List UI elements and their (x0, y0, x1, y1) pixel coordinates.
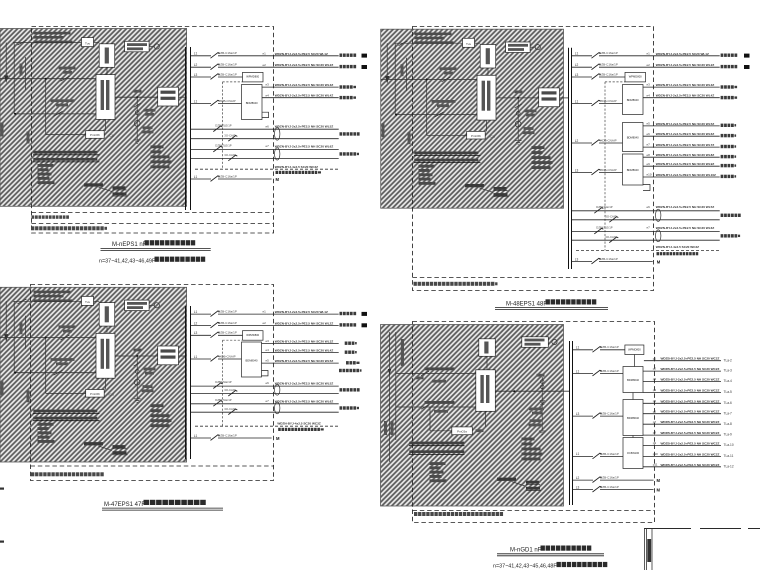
TR module3 output 1 (643, 156, 720, 158)
TR EPS breaker KG1 label (440, 67, 457, 70)
TR module WPMD800 (625, 72, 646, 82)
BL EPS arrow incoming A (5, 301, 8, 340)
BR block breaker B1 (421, 371, 429, 375)
BR note text (414, 512, 417, 516)
BL EPS wire TUV to inverter (94, 300, 100, 302)
TR panel dashed border (413, 27, 654, 291)
BR block output note M (497, 478, 516, 481)
TR EPS contactor chain wire (517, 98, 519, 140)
svg-text:M-nGD1 nF: M-nGD1 nF (510, 548, 542, 554)
TR module BDM8040 no.3 (623, 154, 644, 185)
TL EPS junction B (14, 113, 16, 115)
TR EPS inverter box (480, 45, 496, 69)
TL EPS wire incoming top (13, 42, 82, 44)
TL busbar (185, 47, 187, 210)
svg-text:DZB-C16a/1P: DZB-C16a/1P (218, 51, 237, 55)
svg-text:n=37~41,42,43~45,46,48F: n=37~41,42,43~45,46,48F (493, 564, 557, 570)
BR block EPS output wire (495, 390, 569, 392)
TR EPS arrow incoming A (386, 43, 389, 82)
BL EPS output note M (84, 442, 103, 445)
TR dest C4 group3 3 (721, 175, 724, 178)
svg-text:WDZN-BYJ-2x2.5+PE2.5 NH SC20 W: WDZN-BYJ-2x2.5+PE2.5 NH SC20 WL5Z (275, 359, 334, 363)
svg-text:WDZN-BYJ-2x2.5+PE2.5 NH SC20 W: WDZN-BYJ-2x2.5+PE2.5 NH SC20 WL8Z (656, 153, 715, 157)
svg-text:L1: L1 (576, 452, 580, 456)
BR block riser arrow (388, 369, 391, 375)
TL EPS cable spec line 2 (33, 158, 97, 161)
BR lighting circuit p9 (643, 445, 721, 447)
BL EPS battery text block (151, 404, 164, 407)
svg-text:WDZN-BYJ-2x2.5+PE2.5 NH SC20 W: WDZN-BYJ-2x2.5+PE2.5 NH SC20 WL4Z (275, 94, 334, 98)
svg-text:L2: L2 (194, 321, 198, 325)
svg-text:WDZN-BYJ-2x2.5+PE2.5 NH SC20 W: WDZN-BYJ-2x2.5+PE2.5 NH SC20 WL2Z (275, 322, 334, 326)
svg-text:e3: e3 (266, 339, 270, 343)
BL EPS label PM rating (144, 368, 156, 371)
BL EPS leader line (99, 446, 113, 450)
TL EPS wire EPS to charger (105, 119, 107, 130)
TR wire to busbar (560, 97, 569, 99)
TL module output e4 (262, 97, 339, 99)
svg-text:WDZB-BYJ-2x2.5+PE2.5 NH SC20 W: WDZB-BYJ-2x2.5+PE2.5 NH SC20 WC2Z (661, 399, 720, 403)
svg-text:e7: e7 (647, 143, 651, 147)
svg-text:M: M (657, 488, 661, 493)
BL dest TLx evacuation (345, 342, 348, 345)
BL EPS wire vertical v1 (13, 301, 15, 372)
svg-text:WDZN-BYJ-2x2.5+PE2.5 NH SC20 W: WDZN-BYJ-2x2.5+PE2.5 NH SC20 WL6Z (656, 132, 715, 136)
TR module1 output e3 (643, 86, 720, 88)
svg-text:L1: L1 (194, 175, 198, 179)
TR dest stair lighting 1 (721, 214, 724, 217)
TR dest C4 group3 2 (721, 164, 724, 167)
TL EPS block content (0, 32, 179, 196)
svg-text:BDM8040: BDM8040 (627, 98, 639, 102)
svg-text:DZB47LE/1P: DZB47LE/1P (215, 398, 231, 402)
BR block inverter box (479, 339, 496, 357)
BR lighting circuit p8 (643, 434, 721, 436)
TR EPS wire inverter down (487, 68, 489, 75)
svg-text:DZB-C16a/1P: DZB-C16a/1P (218, 174, 237, 178)
TL EPS label feeder-2 vertical (27, 132, 30, 144)
TR module2 output 2 (643, 135, 720, 137)
TR EPS cable spec line 1 (414, 152, 478, 155)
BL EPS cable spec line 1 (33, 410, 97, 413)
BL EPS junction A (45, 337, 47, 339)
svg-text:L1: L1 (576, 346, 580, 350)
BR block label C1 charger (476, 429, 484, 432)
BR block wire EPS to charger (485, 411, 487, 427)
BL dest evacuation lighting 1 (340, 312, 343, 315)
TL EPS wire EPS output (115, 96, 158, 98)
TR module3 output 3 (643, 176, 720, 178)
BL EPS junction B (14, 372, 16, 374)
TR EPS charger box PmC6K (427, 134, 467, 136)
TR note divider (413, 277, 654, 279)
svg-text:(C1): (C1) (490, 134, 496, 138)
TL EPS wire vertical v1 (13, 43, 15, 114)
TR EPS block content (381, 33, 560, 197)
TR control circuit dashed wire (576, 250, 720, 252)
BL EPS cable spec line 2 (33, 417, 97, 420)
TR control dashed link (604, 82, 606, 251)
TL EPS arrow incoming A (5, 43, 8, 82)
svg-text:p10: p10 (653, 452, 658, 456)
TR control circuit note (657, 252, 660, 255)
BL dest TLx indicator (345, 351, 348, 354)
TL note 1 text (32, 215, 35, 218)
svg-text:DZB-C16a/1P: DZB-C16a/1P (599, 72, 618, 76)
svg-text:DZB-C16a/1P: DZB-C16a/1P (218, 72, 237, 76)
TL EPS wire vertical v2 (24, 57, 26, 90)
BL control circuit note (278, 428, 281, 431)
BL EPS ratings text block (38, 423, 54, 426)
TL EPS cable spec line 1 (33, 151, 97, 154)
TR EPS junction C (517, 97, 519, 99)
svg-text:WDZB-BYJ-2x2.5+PE2.5 NH SC20 W: WDZB-BYJ-2x2.5+PE2.5 NH SC20 WC2Z (661, 410, 720, 414)
svg-text:WDZN-BYJ-2x2.5+PE2.5 NH SC20 W: WDZN-BYJ-2x2.5+PE2.5 NH SC20 WL6Z (275, 145, 334, 149)
BR block label PM rating (529, 408, 544, 411)
svg-text:L1: L1 (575, 52, 579, 56)
svg-text:TLa-8: TLa-8 (724, 422, 733, 426)
BR wire WPMD to module1 (633, 355, 635, 367)
BL EPS label feeder-2 vertical (27, 390, 30, 402)
TL EPS box TUV (82, 38, 94, 47)
TL note divider 1 (32, 212, 274, 214)
TL EPS cable tag 1 (113, 186, 126, 189)
BL EPS charger box PmC6K (46, 392, 86, 394)
left margin tick 2 (0, 541, 4, 543)
TR dest C4 group2 1 (721, 124, 724, 127)
BR block cable spec line 2 (409, 450, 464, 453)
svg-text:L3: L3 (575, 257, 579, 261)
TL dest evacuation lighting 2 (340, 65, 343, 68)
BL EPS bus wire phase A (0, 337, 96, 339)
svg-text:WPMD800: WPMD800 (628, 347, 641, 351)
svg-text:OCBN100: OCBN100 (627, 451, 640, 455)
TR module3 bottom tab (643, 185, 650, 191)
svg-text:e1: e1 (263, 310, 267, 314)
TR EPS junction A (426, 78, 428, 80)
svg-text:WPMD800: WPMD800 (246, 75, 259, 79)
svg-text:e7: e7 (266, 144, 270, 148)
svg-text:L2: L2 (194, 63, 198, 67)
svg-text:DZB-C16a/1P: DZB-C16a/1P (600, 412, 619, 416)
svg-text:XDB-CNA/P: XDB-CNA/P (219, 99, 235, 103)
svg-text:e5: e5 (266, 359, 270, 363)
svg-text:e4: e4 (266, 348, 270, 352)
TR EPS box TUV (463, 38, 475, 47)
svg-text:WDZB-BYJ-2x2.5+PE2.5 NH SC20 W: WDZB-BYJ-2x2.5+PE2.5 NH SC20 WC2Z (661, 357, 720, 361)
svg-text:M: M (276, 436, 280, 441)
TL EPS contactor chain wire (136, 97, 138, 139)
svg-text:M-nEPS1 nF: M-nEPS1 nF (112, 242, 147, 248)
BL EPS junction C (136, 355, 138, 357)
svg-text:e6: e6 (647, 205, 651, 209)
title TR underline (495, 307, 608, 309)
TL dest TLx indicator (340, 96, 343, 99)
TR EPS cable tag 2 (494, 193, 508, 196)
BL module bottom tab (262, 371, 269, 376)
BR block ratings text block (430, 462, 446, 465)
BL EPS breaker KG2 (54, 370, 63, 375)
svg-text:WDZB-BYJ-2x2.5+PE2.5 NH SC20 W: WDZB-BYJ-2x2.5+PE2.5 NH SC20 WC2Z (661, 388, 720, 392)
TR EPS breaker KG1 (442, 77, 451, 82)
BL EPS incoming feeder text (34, 291, 71, 294)
BL EPS block content (0, 291, 179, 455)
svg-text:DZB-C16a/1P: DZB-C16a/1P (600, 369, 619, 373)
BL EPS ground (134, 399, 141, 403)
TL note divider 2 (32, 223, 274, 225)
BR module BDM8040 no.2 (623, 400, 643, 436)
TL module WPMD800 (243, 72, 264, 82)
svg-text:e6: e6 (266, 124, 270, 128)
BR lighting circuit p5 (643, 402, 721, 404)
TR EPS wire vertical v1 (394, 43, 396, 114)
svg-text:L3: L3 (194, 331, 198, 335)
BR module link 2-3 (632, 436, 634, 438)
TR EPS chain switch (515, 104, 522, 108)
TR EPS label KG5 (515, 91, 523, 94)
TR EPS bus wire phase B (396, 114, 477, 116)
adjacent sheet border line (644, 528, 691, 530)
svg-text:L1: L1 (576, 369, 580, 373)
svg-text:WPMD800: WPMD800 (246, 333, 259, 337)
BR block leader line (512, 482, 526, 487)
svg-text:TLa-9: TLa-9 (724, 433, 733, 437)
TL module output e3 (262, 86, 339, 88)
svg-text:DZB47LE/1P: DZB47LE/1P (596, 226, 612, 230)
BL module BDM8040 (242, 342, 262, 377)
TR dest TLx evacuation (721, 85, 724, 88)
TR dest evacuation lighting 1 (721, 54, 724, 57)
svg-text:M: M (657, 478, 661, 483)
svg-text:WDZN-BYJ-2x2.5+PE2.5 NH SC20 W: WDZN-BYJ-2x2.5+PE2.5 NH SC20 WL3Z (275, 83, 334, 87)
TR module BDM8040 no.2 (623, 123, 644, 152)
title BR underline (497, 553, 604, 555)
TL note 2 text (31, 226, 34, 230)
BL EPS contactor circle small (135, 370, 139, 374)
TR EPS breaker KG2 (435, 112, 444, 117)
BR lighting circuit p4 (643, 391, 721, 393)
BR module WPMD800 (625, 345, 644, 355)
BR block label 7P rating (530, 419, 542, 422)
svg-text:e6: e6 (647, 132, 651, 136)
svg-text:L1: L1 (194, 434, 198, 438)
BL equipment hatched enclosure (0, 287, 187, 462)
BR block charger loop wire (430, 407, 452, 431)
BR block riser label 1 (384, 421, 387, 435)
svg-text:DZB-C16a/1P: DZB-C16a/1P (600, 345, 619, 349)
svg-text:DZB47LE/1P: DZB47LE/1P (215, 380, 231, 384)
BR lighting circuit p11 (643, 466, 721, 468)
TL EPS ratings text block (38, 164, 54, 167)
svg-text:L2: L2 (575, 63, 579, 67)
TR EPS controller box (539, 88, 560, 107)
TL dest TLx evacuation (340, 85, 343, 88)
BL EPS indicator circle (149, 304, 154, 306)
BR block junction (513, 390, 515, 392)
svg-text:WDZB-BYJ-2x2.5+PE2.5 NH SC20 W: WDZB-BYJ-2x2.5+PE2.5 NH SC20 WC2Z (661, 442, 720, 446)
TR dest evacuation lighting 2 (721, 65, 724, 68)
BL dest evacuation lighting 2 (340, 323, 343, 326)
TR EPS label feeder-1 vertical (382, 123, 385, 137)
BR lighting circuit p2 (643, 370, 721, 372)
BL EPS cable tag 1 (113, 445, 126, 448)
TR EPS cable tag 1 (494, 187, 507, 190)
TL equipment hatched enclosure (0, 29, 187, 207)
svg-text:L3: L3 (576, 485, 580, 489)
svg-text:M: M (276, 177, 280, 182)
svg-text:e10: e10 (647, 173, 652, 177)
BR block cable spec line 1 (409, 442, 464, 445)
TR EPS bus wire phase A (381, 78, 477, 80)
svg-text:WDZB-BYJ-2x2.5+PE2.5 NH SC20 W: WDZB-BYJ-2x2.5+PE2.5 NH SC20 WC2Z (661, 420, 720, 424)
svg-text:WDZN-BYJ-2x2.5+PE2.5 NH SC20 W: WDZN-BYJ-2x2.5+PE2.5 NH SC20 WL3Z (275, 340, 334, 344)
TL EPS wire TUV to inverter (94, 42, 100, 44)
svg-text:L2: L2 (576, 476, 580, 480)
svg-text:WPMD800: WPMD800 (629, 75, 642, 79)
TR module2 output 1 (643, 125, 720, 127)
svg-text:e6: e6 (266, 381, 270, 385)
svg-text:e7: e7 (647, 226, 651, 230)
svg-text:WDZB-BYJ-2x2.5+PE2.5 NH SC20 W: WDZB-BYJ-2x2.5+PE2.5 NH SC20 WC2Z (661, 452, 720, 456)
BR block EPS main unit box (476, 370, 496, 412)
svg-text:WDZB-BYJ-2x2.5+PE2.5 NH SC20 W: WDZB-BYJ-2x2.5+PE2.5 NH SC20 WC2Z (661, 463, 720, 467)
BR block incoming wire 1 (396, 372, 476, 374)
BR block fire-monitor box (522, 337, 549, 348)
svg-text:XDB-CNA/P: XDB-CNA/P (219, 354, 235, 358)
svg-text:DZB47LE/1P: DZB47LE/1P (215, 123, 231, 127)
TL wire to busbar (179, 96, 186, 98)
TL EPS leader line (99, 187, 113, 191)
svg-text:DZB-C16a/1P: DZB-C16a/1P (599, 63, 618, 67)
TR EPS fire-monitor box PMAC2K (506, 42, 530, 53)
TR EPS switch S1 (399, 41, 408, 46)
adjacent sheet riser label (647, 539, 651, 562)
svg-text:M: M (657, 260, 661, 265)
BL dest stair lighting 1 (340, 388, 343, 391)
TL EPS wire inverter down (106, 67, 108, 74)
TL control dashed link (222, 82, 224, 169)
BR block vertical feeder text (401, 339, 404, 366)
BR module BDM8040 no.1 (623, 367, 643, 393)
BL EPS wire vertical v2 (24, 316, 26, 349)
TR pair1 interlock oval (656, 209, 661, 221)
TL EPS EPS main unit box (96, 75, 115, 120)
BR busbar (569, 341, 571, 505)
TR EPS wire EPS to charger (486, 120, 488, 131)
TR module3 output 2 (643, 165, 720, 167)
svg-text:DZB-C16a/1P: DZB-C16a/1P (218, 331, 237, 335)
TL EPS indicator circle (149, 46, 154, 48)
TL EPS chain switch (134, 103, 141, 107)
TR EPS EPS main unit box (477, 75, 496, 120)
BL EPS breaker KG1 (61, 335, 70, 340)
BL EPS chain switch (134, 362, 141, 366)
svg-text:e1: e1 (647, 51, 651, 55)
svg-text:e4: e4 (266, 93, 270, 97)
TR dest C4 group2 3 (721, 145, 724, 148)
BR block diode D1 (540, 401, 544, 405)
svg-text:XDB-CNA/P: XDB-CNA/P (600, 138, 616, 142)
TL EPS breaker KG2 label (51, 99, 75, 102)
svg-text:L1: L1 (575, 99, 579, 103)
svg-text:BDM8040: BDM8040 (627, 416, 639, 420)
svg-text:WDZN-BYJ-2x2.5+PE2.5 NH SC20 W: WDZN-BYJ-2x2.5+PE2.5 NH SC20 WL4Z (656, 94, 715, 98)
TL panel dashed border (32, 27, 274, 234)
BR lighting circuit p10 (643, 455, 721, 457)
svg-text:e2: e2 (263, 321, 267, 325)
TL EPS wire vertical v3 (45, 79, 47, 135)
svg-text:n=37~41,42,43~46,49F: n=37~41,42,43~46,49F (99, 258, 156, 264)
svg-text:L2: L2 (575, 139, 579, 143)
svg-text:PmC6a: PmC6a (457, 430, 467, 434)
BL EPS contactor chain wire (136, 356, 138, 398)
BR equipment hatched enclosure (381, 325, 564, 507)
BL busbar (185, 306, 187, 459)
TR EPS wire EPS output (496, 97, 539, 99)
TL module bottom tab (262, 112, 269, 117)
TR EPS junction B (395, 114, 397, 116)
BL EPS inverter box (99, 303, 115, 327)
TR EPS battery text block (532, 146, 545, 149)
BL module output e3 (262, 343, 339, 345)
BR block cable tag 1 (526, 481, 539, 484)
TR EPS leader line (480, 188, 494, 192)
BR block riser wire 2 (395, 332, 397, 440)
BR note divider (413, 510, 655, 512)
BL EPS wire EPS output (115, 355, 158, 357)
TL EPS fire-monitor box PMAC2K (125, 41, 150, 52)
svg-text:WDZN-BYJ-4x2.5 SC20 WC3Z: WDZN-BYJ-4x2.5 SC20 WC3Z (277, 421, 320, 425)
svg-text:(C1): (C1) (109, 134, 115, 138)
TL control circuit note (276, 171, 279, 174)
svg-text:e1: e1 (263, 51, 267, 55)
TL dest stair lighting 1 (340, 132, 343, 135)
TR EPS contactor circle small (516, 111, 520, 115)
svg-text:(C1): (C1) (109, 393, 115, 397)
BL pair2 interlock oval (275, 402, 280, 414)
BL note divider (31, 465, 274, 467)
svg-text:Tuv: Tuv (85, 41, 90, 45)
svg-text:WDZB-BYJ-2x2.5+PE2.5 NH SC20 W: WDZB-BYJ-2x2.5+PE2.5 NH SC20 WC2Z (661, 378, 720, 382)
TL EPS battery text block (151, 145, 164, 148)
svg-text:TLa-7: TLa-7 (724, 411, 733, 415)
BL panel dashed border (31, 285, 274, 481)
TR EPS incoming feeder text (415, 33, 452, 36)
svg-text:e8: e8 (647, 153, 651, 157)
TL EPS cable tag 2 (113, 192, 127, 195)
BL EPS breaker KG2 label (51, 358, 75, 361)
left margin tick 1 (0, 488, 4, 490)
TL control circuit dashed wire (195, 168, 339, 170)
svg-text:DZB-C16a/1P: DZB-C16a/1P (600, 485, 619, 489)
title TL underline (101, 247, 211, 249)
svg-text:WDZN-BYJ-2x2.5+PE2.5 NH SC20 W: WDZN-BYJ-2x2.5+PE2.5 NH SC20 WL4Z (275, 349, 334, 353)
TL module BDM8040 (242, 85, 263, 120)
BL EPS label 7P rating (143, 385, 153, 388)
svg-text:BDM8040: BDM8040 (627, 136, 639, 140)
svg-text:DZB-C16a/1P: DZB-C16a/1P (600, 476, 619, 480)
BL EPS controller box (158, 346, 179, 365)
svg-text:TLa-4: TLa-4 (724, 379, 733, 383)
TL EPS label feeder-1 vertical (1, 123, 4, 137)
svg-text:WDZN-BYJ-2x2.5+PE2.5 NH SC20 W: WDZN-BYJ-2x2.5+PE2.5 NH SC20 WL2Z (656, 63, 715, 67)
TR EPS wire vertical v2 (405, 58, 407, 91)
svg-text:DZB-C16a/1P: DZB-C16a/1P (218, 321, 237, 325)
svg-text:e5: e5 (647, 122, 651, 126)
BL EPS wire incoming top (13, 300, 82, 302)
svg-text:L3: L3 (575, 168, 579, 172)
adjacent sheet riser box (644, 528, 646, 570)
